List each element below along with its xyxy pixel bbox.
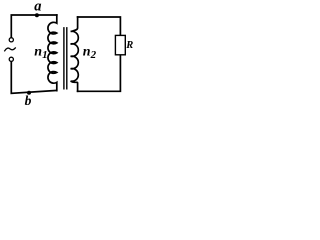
svg-text:n2: n2	[83, 44, 97, 61]
wire: top of secondary loop (coil n2 to resistor R)	[78, 17, 121, 36]
wire: left and bottom of primary loop (source terminal down, through node b to coil n1)	[11, 61, 56, 93]
svg-text:n1: n1	[34, 44, 47, 61]
wire: top of primary loop (source terminal up, right to node a and coil n1)	[11, 15, 57, 38]
AC source terminal (bottom circle)	[9, 57, 13, 61]
inductor: primary winding n1	[48, 15, 57, 91]
AC source sine symbol ~	[5, 48, 16, 51]
inductor: secondary winding n2	[71, 17, 79, 91]
transformer core (two parallel bars)	[64, 28, 67, 89]
svg-text:a: a	[34, 0, 41, 14]
resistor R (box)	[115, 35, 125, 54]
AC source terminal (top circle)	[9, 38, 13, 42]
svg-text:R: R	[125, 40, 133, 51]
wire: right and bottom of secondary loop (resistor R back to coil n2)	[78, 55, 121, 92]
svg-text:b: b	[25, 93, 32, 108]
node a (junction dot)	[35, 13, 39, 17]
node b (junction dot)	[27, 91, 31, 95]
